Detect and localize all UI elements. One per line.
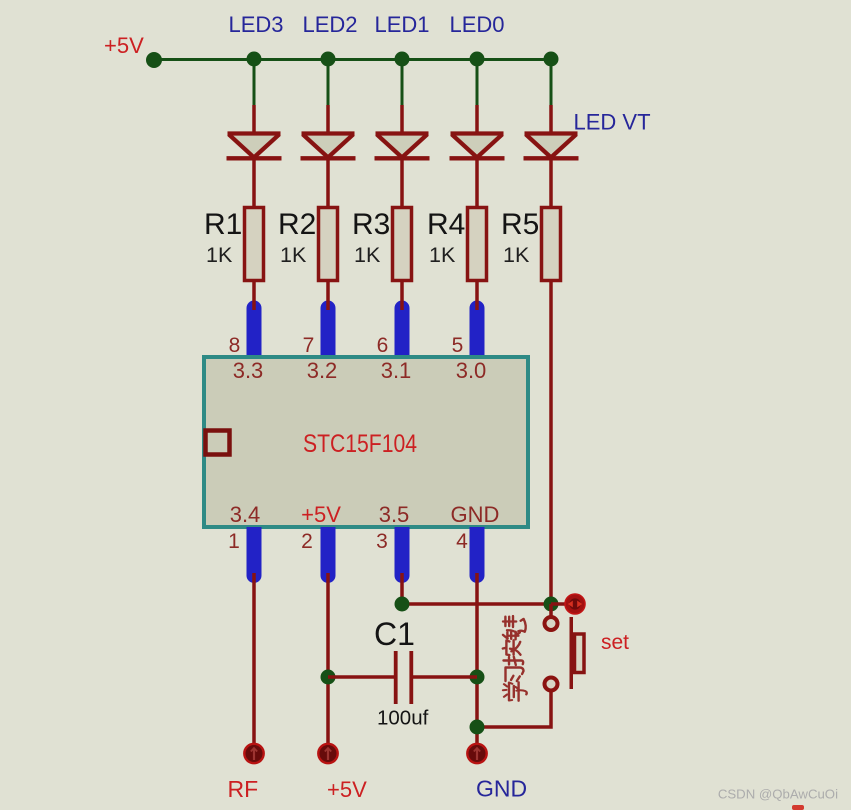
LED D5 <box>524 134 579 159</box>
svg-text:5: 5 <box>452 334 464 357</box>
bus wire pin1 <box>247 527 262 583</box>
wire green drop LED VT <box>550 60 553 108</box>
bus wire pin8 <box>247 301 262 357</box>
svg-text:3.2: 3.2 <box>307 358 338 383</box>
wire pin3 to button <box>402 602 551 606</box>
svg-text:R2: R2 <box>278 208 316 241</box>
svg-text:8: 8 <box>229 334 241 357</box>
svg-text:7: 7 <box>303 334 315 357</box>
wire pin4 to GND terminal <box>475 573 479 744</box>
svg-text:+5V: +5V <box>104 33 144 58</box>
wire pin1 to RF terminal <box>252 573 256 744</box>
svg-text:LED3: LED3 <box>228 12 283 37</box>
svg-text:+5V: +5V <box>301 502 341 527</box>
LED D3 <box>375 134 430 159</box>
wire anode D3 <box>400 105 404 134</box>
svg-text:6: 6 <box>377 334 389 357</box>
svg-text:1: 1 <box>228 530 240 553</box>
svg-text:3.3: 3.3 <box>233 358 264 383</box>
svg-text:LED1: LED1 <box>374 12 429 37</box>
wire R3 to pin6 <box>400 281 404 310</box>
wire +5V rail <box>154 58 551 61</box>
svg-text:3.1: 3.1 <box>381 358 412 383</box>
wire anode D2 <box>326 105 330 134</box>
resistor R3 <box>393 208 412 281</box>
wire anode D1 <box>252 105 256 134</box>
svg-text:R1: R1 <box>204 208 242 241</box>
svg-text:3.0: 3.0 <box>456 358 487 383</box>
wire R1 to pin8 <box>252 281 256 310</box>
wire D2 to R2 <box>326 158 330 208</box>
char 学 <box>503 682 527 701</box>
wire pin3 to junction <box>400 573 404 604</box>
wire junction to button top <box>549 604 553 617</box>
bus wire pin2 <box>321 527 336 583</box>
wire R5 down right side <box>549 281 553 604</box>
svg-text:R5: R5 <box>501 208 539 241</box>
svg-text:LED2: LED2 <box>302 12 357 37</box>
svg-text:R4: R4 <box>427 208 465 241</box>
resistor R1 <box>245 208 264 281</box>
wire D5 to R5 <box>549 158 553 208</box>
terminal GND <box>467 744 486 763</box>
svg-text:LED VT: LED VT <box>574 110 651 135</box>
capacitor C1 plate left <box>394 651 398 704</box>
svg-text:1K: 1K <box>429 243 456 267</box>
svg-text:RF: RF <box>228 776 259 802</box>
junction C1 right <box>470 670 485 685</box>
svg-text:1K: 1K <box>206 243 233 267</box>
wire green drop LED3 <box>253 60 256 108</box>
junction rail LED0 <box>470 52 485 67</box>
svg-text:R3: R3 <box>352 208 390 241</box>
wire button bottom to GND net <box>477 690 551 727</box>
svg-text:+5V: +5V <box>327 777 367 802</box>
button SW1 top terminal <box>545 617 558 630</box>
svg-text:1K: 1K <box>503 243 530 267</box>
svg-text:STC15F104: STC15F104 <box>303 430 417 458</box>
resistor R5 <box>542 208 561 281</box>
bus wire pin3 <box>395 527 410 583</box>
bus wire pin7 <box>321 301 336 357</box>
button SW1 bottom terminal <box>545 678 558 691</box>
char 键 <box>503 616 526 639</box>
svg-text:C1: C1 <box>374 616 415 652</box>
wire green drop LED1 <box>401 60 404 108</box>
watermark logo fragment <box>792 805 804 810</box>
junction GND button <box>470 720 485 735</box>
bus wire pin5 <box>470 301 485 357</box>
node +5V rail left end <box>146 52 162 68</box>
junction rail LED1 <box>395 52 410 67</box>
svg-text:3: 3 <box>376 530 388 553</box>
label 学习按键 (vertical) <box>503 616 527 701</box>
LED D4 <box>450 134 505 159</box>
wire anode D4 <box>475 105 479 134</box>
junction rail right end <box>544 52 559 67</box>
wire D1 to R1 <box>252 158 256 208</box>
button SW1 click actuator icon <box>565 594 585 614</box>
svg-text:100uf: 100uf <box>377 707 429 730</box>
svg-text:GND: GND <box>476 776 527 802</box>
wire R2 to pin7 <box>326 281 330 310</box>
capacitor C1 plate right <box>409 651 413 704</box>
resistor R4 <box>468 208 487 281</box>
wire green drop LED2 <box>327 60 330 108</box>
svg-text:GND: GND <box>451 502 500 527</box>
svg-text:2: 2 <box>301 530 313 553</box>
button SW1 actuator bar <box>570 617 574 689</box>
wire D4 to R4 <box>475 158 479 208</box>
svg-text:1K: 1K <box>354 243 381 267</box>
bus wire pin6 <box>395 301 410 357</box>
wire green drop LED0 <box>476 60 479 108</box>
wire C1 right lead <box>413 675 477 679</box>
svg-text:CSDN @QbAwCuOi: CSDN @QbAwCuOi <box>718 787 838 802</box>
wire R4 to pin5 <box>475 281 479 310</box>
bus wire pin4 <box>470 527 485 583</box>
LED D1 <box>227 134 282 159</box>
junction C1 left <box>321 670 336 685</box>
svg-text:LED0: LED0 <box>449 12 504 37</box>
junction button top node <box>544 597 559 612</box>
wire C1 left lead <box>328 675 394 679</box>
junction rail LED3 <box>247 52 262 67</box>
svg-text:3.5: 3.5 <box>379 502 410 527</box>
junction rail LED2 <box>321 52 336 67</box>
svg-text:3.4: 3.4 <box>230 502 261 527</box>
LED D2 <box>301 134 356 159</box>
svg-text:4: 4 <box>456 530 468 553</box>
wire junction to actuator <box>551 602 566 606</box>
wire anode D5 <box>549 105 553 134</box>
wire pin2 to +5V terminal <box>326 573 330 744</box>
IC U1 STC15F104 body <box>204 357 528 527</box>
wire D3 to R3 <box>400 158 404 208</box>
char 按 <box>503 640 523 665</box>
junction pin3 node <box>395 597 410 612</box>
button SW1 plunger <box>575 634 585 673</box>
IC left notch <box>206 431 230 455</box>
svg-text:set: set <box>601 631 629 654</box>
char 习 <box>506 668 524 682</box>
resistor R2 <box>319 208 338 281</box>
svg-text:1K: 1K <box>280 243 307 267</box>
terminal +5V <box>318 744 337 763</box>
terminal RF <box>244 744 263 763</box>
